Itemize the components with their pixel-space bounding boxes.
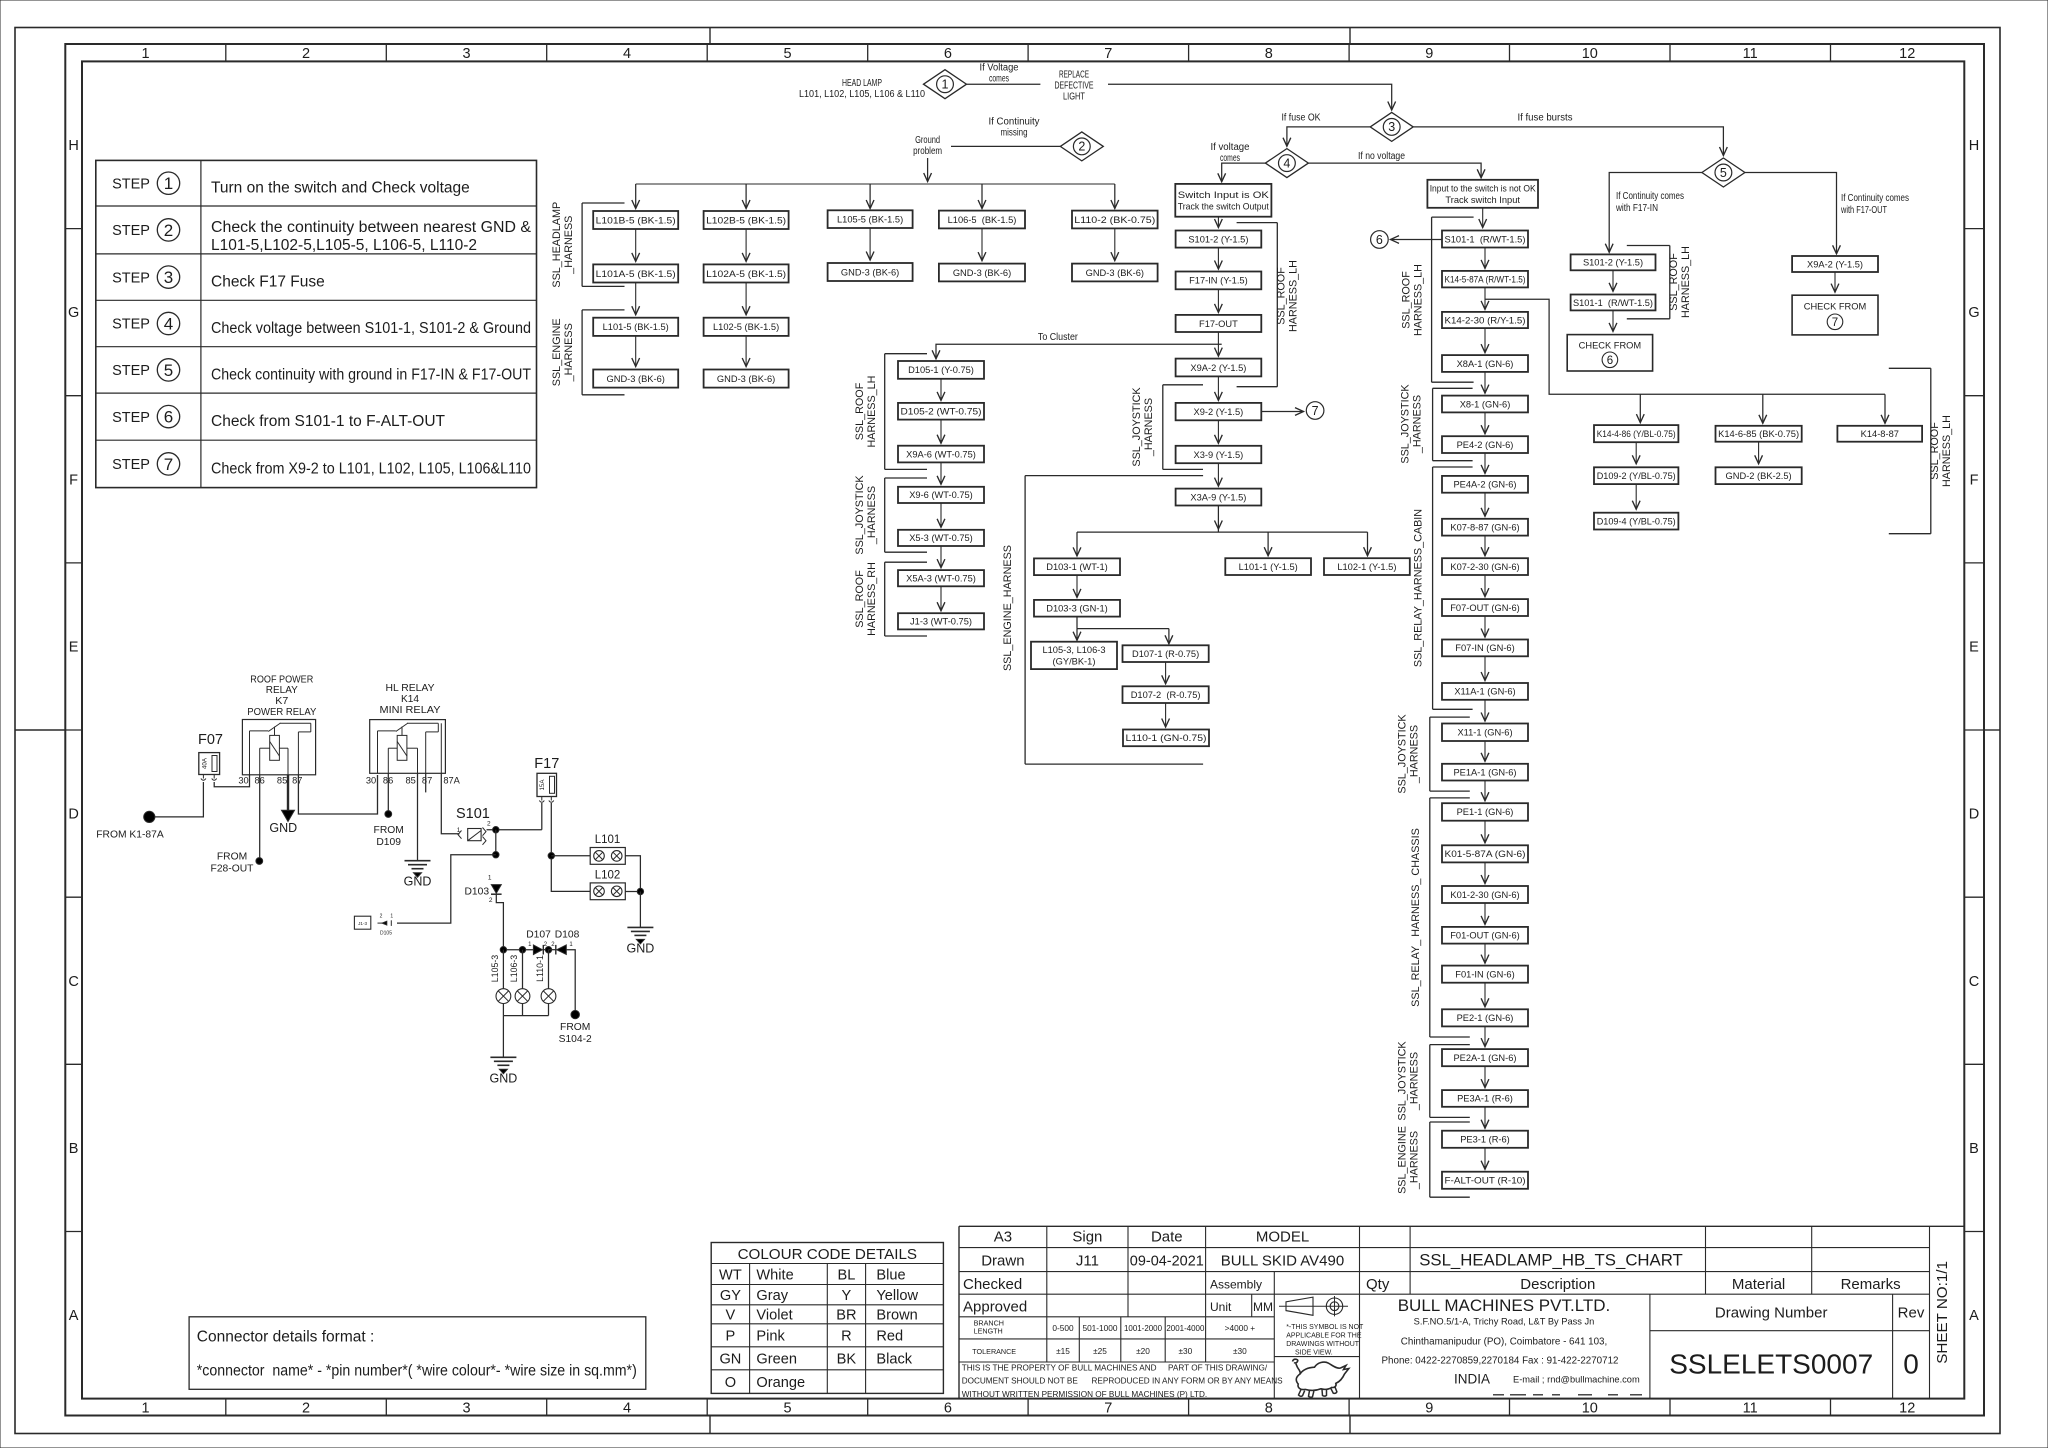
svg-text:6: 6: [1607, 355, 1613, 367]
node PE4A-2 (GN-6): [1442, 476, 1528, 493]
svg-text:Check from X9-2 to L101, L102,: Check from X9-2 to L101, L102, L105, L10…: [211, 460, 531, 477]
svg-text:L102-5 (BK-1.5): L102-5 (BK-1.5): [713, 322, 779, 332]
svg-text:F17-OUT: F17-OUT: [1199, 319, 1238, 329]
svg-text:_HARNESS: _HARNESS: [563, 323, 575, 382]
wire to K14-2-30 (R/Y-1.5): [1484, 287, 1486, 309]
svg-text:E: E: [1969, 640, 1979, 656]
svg-text:FROM K1-87A: FROM K1-87A: [96, 830, 164, 841]
svg-text:*connector name* - *pin numbe: *connector name* - *pin number*( *wire c…: [197, 1363, 637, 1380]
svg-text:White: White: [756, 1267, 793, 1283]
svg-text:5: 5: [783, 1400, 791, 1416]
svg-text:D107-2 (R-0.75): D107-2 (R-0.75): [1131, 690, 1201, 700]
svg-text:Input to the switch is not OK: Input to the switch is not OK: [1430, 183, 1537, 193]
svg-text:If voltage: If voltage: [1211, 142, 1250, 153]
wire to PE1A-1 (GN-6): [1484, 741, 1486, 761]
svg-text:1: 1: [142, 1400, 150, 1416]
svg-text:2: 2: [302, 1400, 310, 1416]
wire diamond5 If Continuity F17-OUT: [1745, 173, 1909, 254]
svg-text:Y: Y: [842, 1288, 852, 1304]
relay K7 ROOF POWER RELAY: [238, 674, 316, 785]
svg-text:8: 8: [1265, 46, 1273, 62]
harness bracket SSL_JOYSTICK_HARNESS mid: [854, 475, 927, 555]
svg-text:H: H: [68, 138, 78, 154]
svg-text:Track the switch Output: Track the switch Output: [1178, 201, 1269, 211]
wire to X11A-1 (GN-6): [1484, 656, 1486, 680]
svg-text:11: 11: [1743, 1400, 1758, 1416]
label Ground problem: [913, 135, 942, 157]
svg-text:K01-2-30 (GN-6): K01-2-30 (GN-6): [1450, 890, 1519, 900]
svg-text:2001-4000: 2001-4000: [1166, 1323, 1204, 1333]
svg-text:INDIA: INDIA: [1454, 1371, 1490, 1386]
svg-text:comes: comes: [1220, 153, 1240, 164]
wire to X9A-2 (Y-1.5): [1217, 332, 1219, 356]
svg-text:3: 3: [1388, 120, 1395, 134]
node X8A-1 (GN-6): [1442, 355, 1528, 372]
svg-text:E: E: [69, 640, 79, 656]
svg-text:HARNESS_LH: HARNESS_LH: [1941, 415, 1953, 487]
node L106-5: [939, 211, 1025, 229]
node PE1A-1 (GN-6): [1442, 764, 1528, 781]
svg-text:10: 10: [1582, 46, 1598, 62]
svg-text:2: 2: [487, 820, 491, 827]
svg-text:X5A-3 (WT-0.75): X5A-3 (WT-0.75): [906, 574, 976, 584]
wire D108 to S104-2: [566, 950, 575, 1015]
svg-text:APPLICABLE FOR THE: APPLICABLE FOR THE: [1286, 1333, 1362, 1340]
wire to K01-5-87A (GN-6): [1484, 821, 1486, 843]
harness bracket SSL_ROOF HARNESS_LH mid: [854, 354, 927, 470]
wire to D105-2 (WT-0.75): [940, 379, 942, 401]
node X9A-6 (WT-0.75): [898, 446, 984, 463]
diode D108: [549, 930, 580, 955]
svg-text:S101-1 (R/WT-1.5): S101-1 (R/WT-1.5): [1573, 298, 1653, 308]
svg-text:missing: missing: [1001, 128, 1028, 139]
wire to F07-IN (GN-6): [1484, 616, 1486, 637]
svg-text:If Continuity comes: If Continuity comes: [1841, 193, 1909, 204]
wire diamond3 If fuse bursts to diamond5: [1413, 113, 1723, 156]
node F01-OUT (GN-6): [1442, 927, 1528, 944]
svg-text:Black: Black: [876, 1352, 912, 1368]
node L101A-5: [593, 264, 678, 282]
svg-text:L101B-5 (BK-1.5): L101B-5 (BK-1.5): [596, 215, 676, 225]
node D107-1: [1123, 645, 1209, 662]
wire to F17-OUT: [1217, 289, 1219, 312]
svg-text:0-500: 0-500: [1052, 1323, 1074, 1333]
svg-text:A: A: [1969, 1308, 1979, 1324]
svg-text:O: O: [725, 1375, 736, 1391]
svg-text:STEP: STEP: [112, 223, 150, 239]
wire to X3-9 (Y-1.5): [1217, 420, 1219, 443]
svg-text:10: 10: [1582, 1400, 1598, 1416]
svg-text:SSL_HEADLAMP_HB_TS_CHART: SSL_HEADLAMP_HB_TS_CHART: [1419, 1250, 1683, 1269]
node D105-2 (WT-0.75): [898, 403, 984, 420]
node K07-8-87 (GN-6): [1442, 519, 1528, 536]
svg-text:S101-1 (R/WT-1.5): S101-1 (R/WT-1.5): [1445, 234, 1526, 244]
svg-text:D109: D109: [376, 837, 401, 848]
svg-text:STEP: STEP: [112, 317, 150, 333]
node L101-1: [1225, 558, 1311, 575]
svg-text:PE2-1 (GN-6): PE2-1 (GN-6): [1457, 1013, 1514, 1023]
svg-text:D103: D103: [464, 887, 489, 898]
svg-text:D107: D107: [526, 930, 551, 941]
svg-text:6: 6: [944, 46, 952, 62]
svg-text:Phone: 0422-2270859,2270184 Fa: Phone: 0422-2270859,2270184 Fax : 91-422…: [1382, 1356, 1619, 1367]
svg-text:A3: A3: [994, 1229, 1012, 1246]
svg-text:FROM: FROM: [374, 825, 404, 836]
svg-text:GND-3 (BK-6): GND-3 (BK-6): [841, 267, 899, 277]
lamp L101: [590, 834, 625, 864]
node D105-1 (Y-0.75): [898, 361, 984, 379]
svg-text:FROM: FROM: [217, 852, 247, 863]
node GND-3 b: [704, 370, 789, 388]
svg-text:X3A-9 (Y-1.5): X3A-9 (Y-1.5): [1190, 492, 1246, 502]
svg-text:HARNESS_LH: HARNESS_LH: [866, 375, 878, 447]
svg-text:3: 3: [462, 1400, 470, 1416]
wire to F01-IN (GN-6): [1484, 944, 1486, 964]
wire to X9-6 (WT-0.75): [940, 462, 942, 484]
svg-text:GND-3 (BK-6): GND-3 (BK-6): [607, 374, 665, 384]
svg-text:problem: problem: [913, 146, 942, 157]
wire to PE1-1 (GN-6): [1484, 781, 1486, 801]
svg-text:L101: L101: [595, 834, 621, 846]
svg-text:GND-2 (BK-2.5): GND-2 (BK-2.5): [1726, 471, 1792, 481]
svg-text:K14-2-30 (R/Y-1.5): K14-2-30 (R/Y-1.5): [1445, 315, 1526, 325]
wire to PE4A-2 (GN-6): [1484, 453, 1486, 473]
svg-text:Check the continuity between n: Check the continuity between nearest GND…: [211, 219, 532, 236]
wire D103-3 branch: [1077, 617, 1169, 644]
wire lamp node row: [500, 947, 533, 953]
svg-text:If fuse OK: If fuse OK: [1282, 112, 1321, 123]
svg-text:Checked: Checked: [963, 1276, 1022, 1293]
svg-text:A: A: [69, 1308, 79, 1324]
wire K7-87 to K14-30: [298, 775, 377, 814]
node K14-6-85: [1716, 426, 1802, 442]
wire to X9-2 (Y-1.5): [1217, 376, 1219, 400]
wire diamond4 If voltage comes: [1211, 142, 1266, 182]
svg-text:Violet: Violet: [756, 1308, 792, 1324]
svg-text:MINI RELAY: MINI RELAY: [380, 705, 441, 716]
svg-text:GND: GND: [404, 875, 432, 889]
svg-text:F17: F17: [534, 756, 559, 772]
wire to F-ALT-OUT (R-10): [1484, 1148, 1486, 1169]
svg-text:D105-2 (WT-0.75): D105-2 (WT-0.75): [901, 407, 982, 417]
wire D107-1 to D107-2: [1165, 662, 1167, 684]
svg-text:If Voltage: If Voltage: [980, 63, 1019, 74]
svg-text:PART OF THIS DRAWING/: PART OF THIS DRAWING/: [1168, 1363, 1268, 1372]
wire to X5A-3 (WT-0.75): [940, 546, 942, 568]
svg-text:SSL_ROOF: SSL_ROOF: [854, 382, 866, 440]
wire K14-6-85 to GND-2: [1758, 442, 1760, 464]
svg-text:_HARNESS: _HARNESS: [866, 486, 878, 545]
svg-text:L102A-5 (BK-1.5): L102A-5 (BK-1.5): [706, 269, 786, 279]
fuse F17 15A: [534, 756, 559, 802]
svg-text:POWER RELAY: POWER RELAY: [247, 707, 316, 718]
wire to PE2A-1 (GN-6): [1484, 1026, 1486, 1046]
svg-text:HARNESS_LH: HARNESS_LH: [1288, 260, 1300, 332]
svg-text:Drawn: Drawn: [981, 1252, 1024, 1269]
svg-text:HEAD LAMP: HEAD LAMP: [842, 78, 882, 89]
wire L102B-5 to L102A-5: [745, 229, 747, 261]
svg-text:8: 8: [1265, 1400, 1273, 1416]
svg-text:X9A-6 (WT-0.75): X9A-6 (WT-0.75): [906, 449, 976, 459]
svg-text:F07: F07: [198, 732, 223, 748]
svg-text:Pink: Pink: [756, 1329, 785, 1345]
svg-text:HARNESS_LH: HARNESS_LH: [1680, 246, 1692, 318]
svg-text:87A: 87A: [443, 776, 460, 786]
svg-text:(GY/BK-1): (GY/BK-1): [1053, 657, 1096, 667]
sheet number: [1934, 1261, 1951, 1364]
node K14-8-87: [1837, 426, 1922, 442]
svg-text:6: 6: [1376, 233, 1383, 247]
node GND-3 d: [939, 264, 1025, 282]
diode D103: [464, 875, 503, 947]
node K14-4-86: [1594, 425, 1678, 442]
svg-text:DOCUMENT SHOULD NOT BE RE: DOCUMENT SHOULD NOT BE REPRODUCED IN ANY…: [962, 1377, 1283, 1386]
svg-text:7: 7: [1104, 1400, 1112, 1416]
svg-text:9: 9: [1425, 1400, 1433, 1416]
svg-text:L105-3: L105-3: [490, 955, 500, 982]
svg-text:2: 2: [489, 897, 493, 904]
svg-text:±30: ±30: [1179, 1346, 1193, 1356]
wire F07 to K1-87A: [155, 782, 204, 817]
node X11A-1 (GN-6): [1442, 683, 1528, 700]
svg-text:Brown: Brown: [876, 1308, 917, 1324]
harness bracket SSL_ROOF HARNESS_LH q: [1627, 246, 1692, 319]
node GND-3 c: [828, 263, 913, 281]
svg-text:9: 9: [1425, 46, 1433, 62]
svg-text:L101-5 (BK-1.5): L101-5 (BK-1.5): [603, 322, 669, 332]
node X9A-2 q: [1792, 256, 1878, 272]
node L110-2: [1072, 211, 1158, 229]
svg-text:Gray: Gray: [756, 1288, 788, 1304]
svg-text:1: 1: [390, 914, 393, 920]
svg-text:Rev: Rev: [1898, 1305, 1925, 1322]
svg-text:Sign: Sign: [1072, 1229, 1102, 1246]
fuse F07 40A: [198, 732, 223, 780]
svg-text:Qty: Qty: [1366, 1276, 1390, 1293]
svg-text:F-ALT-OUT (R-10): F-ALT-OUT (R-10): [1445, 1176, 1526, 1186]
wire D103-1 to D103-3: [1076, 575, 1078, 597]
svg-text:1: 1: [164, 174, 173, 193]
svg-text:To Cluster: To Cluster: [1038, 332, 1079, 343]
wire to X5-3 (WT-0.75): [940, 503, 942, 527]
svg-text:S.F.NO.5/1-A, Trichy Road, L&T: S.F.NO.5/1-A, Trichy Road, L&T By Pass J…: [1414, 1316, 1595, 1326]
svg-text:FROM: FROM: [560, 1022, 590, 1033]
svg-text:SSL_ROOF: SSL_ROOF: [1275, 267, 1287, 325]
svg-text:PE4A-2 (GN-6): PE4A-2 (GN-6): [1453, 480, 1516, 490]
wire F07 to K7-30: [214, 775, 249, 787]
svg-text:B: B: [69, 1141, 79, 1157]
svg-text:X11-1 (GN-6): X11-1 (GN-6): [1457, 728, 1512, 738]
node PE1-1 (GN-6): [1442, 803, 1528, 821]
wire headlamp ground distribution: [636, 184, 1115, 209]
svg-text:SSL_ROOF: SSL_ROOF: [854, 570, 866, 628]
svg-text:STEP: STEP: [112, 363, 150, 379]
svg-text:X8A-1 (GN-6): X8A-1 (GN-6): [1457, 359, 1514, 369]
svg-text:Green: Green: [756, 1352, 797, 1368]
node CHECK FROM 7: [1792, 295, 1878, 335]
svg-text:STEP: STEP: [112, 270, 150, 286]
svg-text:G: G: [1968, 305, 1979, 321]
node L102-5: [704, 318, 789, 336]
node GND-2: [1716, 467, 1802, 484]
wire to F07-OUT (GN-6): [1484, 575, 1486, 597]
svg-text:STEP: STEP: [112, 457, 150, 473]
node PE3A-1 (R-6): [1442, 1090, 1528, 1107]
svg-text:SSL_HEADLAMP: SSL_HEADLAMP: [551, 202, 563, 288]
node CHECK FROM 6: [1567, 335, 1652, 371]
node Switch Input is OK: [1175, 184, 1271, 217]
node X9A-2 (Y-1.5): [1176, 359, 1262, 377]
svg-text:SSL_JOYSTICK: SSL_JOYSTICK: [1396, 714, 1408, 794]
wire S101-2 to S101-1: [1612, 270, 1614, 291]
node X5A-3 (WT-0.75): [898, 570, 984, 586]
node X5-3 (WT-0.75): [898, 530, 984, 546]
svg-text:LENGTH: LENGTH: [974, 1326, 1003, 1335]
svg-text:If no voltage: If no voltage: [1358, 151, 1405, 162]
svg-text:PE1A-1 (GN-6): PE1A-1 (GN-6): [1453, 767, 1516, 777]
wire to K07-8-87 (GN-6): [1484, 493, 1486, 517]
svg-text:D107-1 (R-0.75): D107-1 (R-0.75): [1132, 649, 1199, 659]
svg-text:BR: BR: [836, 1308, 856, 1324]
node F17-IN (Y-1.5): [1176, 272, 1262, 290]
svg-text:Approved: Approved: [963, 1298, 1027, 1315]
svg-text:F17-IN (Y-1.5): F17-IN (Y-1.5): [1189, 276, 1248, 286]
wire to J1-3 (WT-0.75): [940, 586, 942, 610]
colour code table: [711, 1243, 943, 1394]
node D109-4: [1594, 513, 1678, 530]
svg-text:15A: 15A: [539, 779, 546, 791]
svg-text:4: 4: [164, 315, 173, 334]
svg-text:HL RELAY: HL RELAY: [386, 683, 435, 694]
node L102A-5: [704, 264, 789, 282]
node PE2-1 (GN-6): [1442, 1009, 1528, 1026]
svg-text:Track switch Input: Track switch Input: [1445, 195, 1520, 205]
svg-text:WITHOUT WRITTEN PERMISSION OF: WITHOUT WRITTEN PERMISSION OF BULL MACHI…: [962, 1390, 1207, 1399]
node L101B-5: [593, 211, 678, 229]
svg-text:K07-2-30 (GN-6): K07-2-30 (GN-6): [1450, 562, 1519, 572]
label HEAD LAMP: [799, 78, 925, 100]
svg-text:BK: BK: [837, 1352, 857, 1368]
svg-text:THIS IS THE PROPERTY OF BULL M: THIS IS THE PROPERTY OF BULL MACHINES AN…: [962, 1363, 1157, 1372]
svg-text:L106-3: L106-3: [509, 955, 519, 982]
svg-text:D109-4 (Y/BL-0.75): D109-4 (Y/BL-0.75): [1597, 516, 1676, 526]
svg-text:S101-2 (Y-1.5): S101-2 (Y-1.5): [1583, 258, 1643, 268]
wire To Cluster branch: [936, 332, 1222, 359]
svg-text:Check continuity with ground i: Check continuity with ground in F17-IN &…: [211, 366, 531, 383]
svg-text:K01-5-87A (GN-6): K01-5-87A (GN-6): [1445, 849, 1526, 859]
svg-text:Orange: Orange: [756, 1375, 805, 1391]
svg-text:comes: comes: [989, 74, 1009, 85]
harness bracket SSL_ENGINE_HARNESS r5: [1396, 1122, 1469, 1197]
svg-text:J1-3: J1-3: [358, 921, 367, 926]
svg-text:PE1-1 (GN-6): PE1-1 (GN-6): [1457, 807, 1514, 817]
svg-text:87: 87: [292, 776, 302, 786]
svg-text:7: 7: [1832, 317, 1838, 329]
lamp L102: [590, 870, 625, 900]
svg-text:L101A-5 (BK-1.5): L101A-5 (BK-1.5): [596, 269, 676, 279]
decision diamond 5 (continuity check): [1702, 158, 1745, 187]
svg-text:L102B-5 (BK-1.5): L102B-5 (BK-1.5): [706, 215, 786, 225]
wire to K07-2-30 (GN-6): [1484, 536, 1486, 556]
svg-text:GND-3 (BK-6): GND-3 (BK-6): [717, 374, 775, 384]
wire L102A-5 to L102-5: [745, 283, 747, 315]
svg-text:0: 0: [1903, 1349, 1919, 1380]
harness bracket SSL_JOYSTICK_HARNESS r4: [1396, 1041, 1469, 1121]
svg-text:D109-2 (Y/BL-0.75): D109-2 (Y/BL-0.75): [1597, 471, 1676, 481]
wire L101/L102 to GND: [625, 856, 643, 928]
svg-text:1: 1: [488, 875, 492, 882]
switch S101: [456, 806, 491, 845]
node L105-3 L106-3: [1031, 642, 1117, 669]
step table: [96, 160, 537, 487]
svg-text:TOLERANCE: TOLERANCE: [972, 1347, 1016, 1356]
lamp branch L105-3: [490, 950, 511, 1016]
svg-text:BL: BL: [837, 1267, 855, 1283]
svg-text:with F17-IN: with F17-IN: [1615, 203, 1658, 214]
svg-text:with F17-OUT: with F17-OUT: [1840, 205, 1887, 216]
svg-text:X8-1 (GN-6): X8-1 (GN-6): [1460, 399, 1511, 409]
svg-text:HARNESS_RH: HARNESS_RH: [866, 562, 878, 636]
node PE2A-1 (GN-6): [1442, 1049, 1528, 1066]
wire to X9A-6 (WT-0.75): [940, 420, 942, 444]
decision diamond 2 (continuity missing): [1060, 132, 1103, 161]
svg-text:X9A-2 (Y-1.5): X9A-2 (Y-1.5): [1807, 259, 1863, 269]
svg-text:SSL_ENGINE_HARNESS: SSL_ENGINE_HARNESS: [1002, 545, 1014, 671]
svg-text:6: 6: [944, 1400, 952, 1416]
lamp branch L106-3: [509, 950, 530, 1016]
svg-text:K07-8-87 (GN-6): K07-8-87 (GN-6): [1450, 523, 1519, 533]
node L105-5: [828, 210, 913, 228]
svg-text:K14-5-87A (R/WT-1.5): K14-5-87A (R/WT-1.5): [1445, 274, 1526, 284]
wire X3A-9 distribution: [1077, 506, 1368, 556]
wire diamond1 to replace-light: [967, 63, 1041, 85]
svg-text:5: 5: [783, 46, 791, 62]
svg-text:SSL_ROOF: SSL_ROOF: [1929, 422, 1941, 480]
wire L102-5 to GND-3: [745, 336, 747, 367]
node X9-2 (Y-1.5): [1176, 403, 1262, 420]
ground GND K7-85: [269, 775, 297, 835]
harness bracket SSL_ROOF HARNESS_LH right big: [1889, 368, 1953, 533]
svg-text:PE4-2 (GN-6): PE4-2 (GN-6): [1457, 440, 1514, 450]
svg-text:SHEET NO:1/1: SHEET NO:1/1: [1934, 1261, 1951, 1364]
svg-text:COLOUR CODE DETAILS: COLOUR CODE DETAILS: [738, 1246, 917, 1263]
wire L101B-5 to L101A-5: [635, 229, 637, 261]
svg-text:S101: S101: [456, 806, 490, 822]
wire K14-87A to S101: [441, 773, 459, 833]
svg-text:V: V: [726, 1308, 736, 1324]
svg-text:L110-1 (GN-0.75): L110-1 (GN-0.75): [1126, 733, 1207, 743]
title block: [959, 1226, 1964, 1399]
harness bracket SSL_ENGINE_HARNESS left: [551, 310, 625, 395]
svg-text:_HARNESS: _HARNESS: [1409, 725, 1421, 784]
node S101-1 (R/WT-1.5): [1442, 231, 1528, 248]
svg-text:_HARNESS: _HARNESS: [1412, 395, 1424, 454]
svg-text:J11: J11: [1076, 1252, 1099, 1269]
svg-text:P: P: [726, 1329, 736, 1345]
svg-text:Chinthamanipudur (PO), Coimbat: Chinthamanipudur (PO), Coimbatore - 641 …: [1401, 1337, 1607, 1348]
node GND-3 a: [593, 370, 678, 388]
wire to PE2-1 (GN-6): [1484, 983, 1486, 1007]
node FROM S104-2: [559, 1010, 592, 1045]
svg-text:_HARNESS: _HARNESS: [1143, 398, 1155, 457]
svg-text:PE3-1 (R-6): PE3-1 (R-6): [1460, 1135, 1510, 1145]
node FROM F28-OUT: [211, 852, 263, 875]
wire diamond4 If no voltage: [1308, 151, 1481, 178]
svg-text:Turn on the switch and Check v: Turn on the switch and Check voltage: [211, 180, 470, 197]
svg-text:4: 4: [1283, 156, 1290, 170]
svg-text:1001-2000: 1001-2000: [1124, 1323, 1162, 1333]
svg-text:GND: GND: [627, 942, 655, 956]
